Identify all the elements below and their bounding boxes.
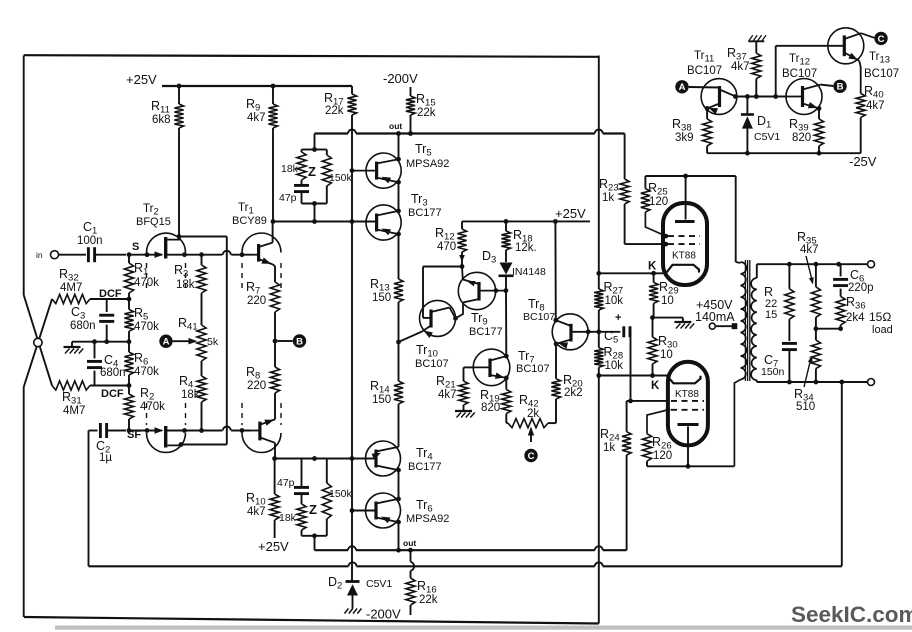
svg-text:5k: 5k xyxy=(207,336,219,348)
node B main xyxy=(293,334,306,347)
svg-text:A: A xyxy=(679,82,686,93)
transistor Tr5 xyxy=(366,153,401,188)
junction R12 bottom xyxy=(460,264,465,269)
svg-text:10k: 10k xyxy=(605,295,624,307)
wire feedback diagonal from R32 xyxy=(24,299,52,387)
svg-text:150k: 150k xyxy=(329,172,353,184)
junction Tr8 collector xyxy=(553,318,558,323)
transistor Tr1 xyxy=(257,244,260,262)
junction S xyxy=(127,252,132,257)
wire Z1 left branch xyxy=(302,149,315,151)
svg-text:120: 120 xyxy=(649,196,668,208)
wire Tr4-Tr6 xyxy=(398,470,400,499)
svg-text:150n: 150n xyxy=(761,366,785,378)
transistor Tr6 xyxy=(366,493,401,528)
svg-text:4k7: 4k7 xyxy=(247,506,266,518)
resistor R8 xyxy=(270,367,279,393)
junction C6 top xyxy=(836,262,841,267)
wire Tr9 collector drop xyxy=(456,303,464,319)
resistor R28 xyxy=(594,348,603,368)
transformer primary xyxy=(741,262,747,380)
svg-text:1k: 1k xyxy=(602,192,614,204)
wire Tr13 emitter xyxy=(859,61,861,94)
transistor Tr10 xyxy=(420,300,456,336)
svg-text:BC107: BC107 xyxy=(516,363,550,375)
ground D2 xyxy=(345,609,349,614)
junction R9/Tr1 collector xyxy=(271,219,276,224)
resistor R16 xyxy=(410,550,412,562)
svg-text:-200V: -200V xyxy=(383,71,418,86)
wire drain rail xyxy=(226,237,228,445)
svg-text:K: K xyxy=(651,380,660,392)
wire Tr13 collector to C xyxy=(861,33,874,38)
wire primary top lead xyxy=(735,176,737,262)
resistor R23 xyxy=(624,134,626,180)
resistor R21 xyxy=(463,367,465,381)
wire Tr1b emitter to R8 xyxy=(274,393,276,419)
junction out chain xyxy=(396,131,401,136)
svg-text:150: 150 xyxy=(372,292,391,304)
resistor R40 xyxy=(856,94,865,118)
svg-text:-25V: -25V xyxy=(849,154,877,169)
diode D1 xyxy=(746,97,748,115)
svg-text:18k: 18k xyxy=(279,512,297,524)
node C bias xyxy=(874,32,887,45)
wire driver node xyxy=(273,221,375,223)
wire Tr1 emitter to R7 xyxy=(273,264,275,266)
node B bias xyxy=(833,80,846,93)
node C main xyxy=(524,449,537,462)
transistor Tr2b xyxy=(164,426,167,448)
svg-text:-200V: -200V xyxy=(366,607,401,622)
svg-text:120: 120 xyxy=(653,450,672,462)
junction Tr10 emitter wire xyxy=(396,340,401,345)
svg-text:470k: 470k xyxy=(134,277,159,289)
wire primary bottom lead xyxy=(734,380,740,467)
wire left border lower xyxy=(23,387,25,617)
capacitor C3 xyxy=(106,299,108,312)
wire out rail bottom xyxy=(315,549,349,551)
transistor Tr2 xyxy=(164,237,167,259)
svg-text:C5V1: C5V1 xyxy=(366,578,392,590)
wire ground link xyxy=(72,341,129,343)
svg-text:B: B xyxy=(837,82,844,93)
resistor R27 xyxy=(594,289,603,310)
wire Tr10 base xyxy=(423,317,431,319)
wire Tr6 base wire xyxy=(352,510,376,512)
junction R9 top xyxy=(271,84,276,89)
resistor R12 xyxy=(461,221,463,229)
envelope arc BJT bottom xyxy=(242,433,281,453)
svg-text:BC177: BC177 xyxy=(408,207,442,219)
wire Z2 bottom xyxy=(302,535,327,537)
svg-text:2k: 2k xyxy=(527,408,539,420)
envelope dashes BJT xyxy=(241,263,243,289)
wire S rail xyxy=(128,255,130,263)
resistor R3 xyxy=(197,265,206,293)
potentiometer R41 xyxy=(197,325,206,361)
wire S to gate xyxy=(129,254,162,256)
svg-text:2k2: 2k2 xyxy=(564,387,583,399)
svg-text:Z: Z xyxy=(309,502,317,517)
resistor R5 xyxy=(124,309,133,331)
svg-text:BFQ15: BFQ15 xyxy=(136,216,171,228)
diode D2 xyxy=(346,580,360,583)
junction K1 rail xyxy=(596,271,601,276)
svg-text:4k7: 4k7 xyxy=(247,112,266,124)
diode D3 xyxy=(500,263,513,275)
svg-text:B: B xyxy=(296,336,303,347)
wire left border upper xyxy=(23,56,25,296)
wire drain2 link xyxy=(181,444,227,446)
svg-text:1µ: 1µ xyxy=(99,452,112,464)
junction D3 node xyxy=(504,288,509,293)
resistor Z2 150k xyxy=(322,483,331,519)
wire Z1 right branch xyxy=(315,149,327,151)
wire hop 3 xyxy=(595,562,603,566)
terminal +450V xyxy=(709,323,715,329)
transistor Tr7 xyxy=(473,349,510,386)
wire R7-R8 xyxy=(274,312,276,367)
junction Tr1 base tip xyxy=(240,252,245,257)
wire Tr10 emitter diagonal xyxy=(399,332,423,343)
svg-text:out: out xyxy=(389,121,402,131)
svg-text:SeekIC.com: SeekIC.com xyxy=(791,602,912,627)
wire R34 pointer xyxy=(804,358,811,387)
wire Tr12 collector to B xyxy=(820,85,833,86)
wire -25V rail xyxy=(707,152,861,154)
svg-text:15: 15 xyxy=(765,309,777,321)
svg-text:4k7: 4k7 xyxy=(731,61,750,73)
junction R3 top xyxy=(199,252,204,257)
junction C7 bottom xyxy=(787,380,792,385)
svg-text:out: out xyxy=(403,538,416,548)
svg-text:2k4: 2k4 xyxy=(846,312,865,324)
resistor R31 xyxy=(52,381,90,390)
junction DCF1 xyxy=(127,297,132,302)
junction bias rail xyxy=(350,219,355,224)
wire R13-R14 xyxy=(398,302,400,381)
svg-text:10: 10 xyxy=(661,295,674,307)
junction R10 top xyxy=(272,456,277,461)
junction R18 top xyxy=(504,219,509,224)
svg-text:A: A xyxy=(163,337,170,348)
tube V2 KT88 xyxy=(668,362,708,446)
svg-text:BC177: BC177 xyxy=(408,461,442,473)
scan edge band xyxy=(55,626,912,630)
wire bias chain rail xyxy=(351,115,353,582)
junction anode1 xyxy=(683,174,688,179)
svg-text:MPSA92: MPSA92 xyxy=(406,513,449,525)
wire to B xyxy=(277,340,292,342)
resistor R24 xyxy=(626,401,628,432)
wire hop 1 xyxy=(349,562,357,566)
resistor R7 xyxy=(270,282,279,312)
resistor R25 xyxy=(644,176,646,189)
resistor R10 xyxy=(274,459,276,495)
wire C5 to grid2 xyxy=(629,331,632,333)
node crossover hop X xyxy=(34,338,42,346)
wire base node 2 xyxy=(275,458,376,460)
wire anode1 stem xyxy=(685,176,687,220)
wire grid1 xyxy=(625,243,666,245)
wire Tr5 emitter xyxy=(398,134,400,160)
wire hop SF wire xyxy=(223,427,231,431)
wire Tr1 collector xyxy=(272,222,274,243)
svg-text:10: 10 xyxy=(660,349,673,361)
svg-text:BC107: BC107 xyxy=(687,65,722,77)
transistor Tr9 xyxy=(458,272,495,309)
junction Tr8 emitter xyxy=(554,342,559,347)
junction Tr4 base xyxy=(350,456,355,461)
junction D1 top xyxy=(745,94,750,99)
junction R4 rail SF xyxy=(199,428,204,433)
wire SF line xyxy=(129,430,162,432)
svg-text:470: 470 xyxy=(437,241,456,253)
junction Tr7 collector xyxy=(504,354,509,359)
resistor Z2 18k xyxy=(297,504,306,530)
svg-text:+: + xyxy=(615,312,621,324)
svg-text:MPSA92: MPSA92 xyxy=(406,158,449,170)
resistor R38 xyxy=(706,108,708,119)
wire Tr6 collector xyxy=(398,522,400,550)
resistor R30 xyxy=(652,318,654,337)
wire grid2 line xyxy=(627,400,668,402)
wire hop border bottom xyxy=(595,546,603,550)
svg-text:R: R xyxy=(764,285,773,299)
junction R34 bottom xyxy=(814,380,819,385)
wire bottom border xyxy=(24,617,599,624)
svg-text:22k: 22k xyxy=(325,105,344,117)
wire out rail top xyxy=(315,132,349,134)
wire anode2 rail xyxy=(647,465,734,467)
junction mid xyxy=(127,339,132,344)
svg-text:6k8: 6k8 xyxy=(152,114,171,126)
envelope dashes FET xyxy=(146,263,148,289)
wire anode2 stem xyxy=(687,426,689,466)
resistor Z1 18k xyxy=(297,152,306,180)
ground C3 xyxy=(71,342,73,347)
svg-text:4M7: 4M7 xyxy=(63,405,85,417)
junction Tr6 base xyxy=(350,508,355,513)
resistor R15 xyxy=(410,87,412,96)
wire R35 pointer xyxy=(806,256,813,282)
transistor Tr2 gate arrow xyxy=(155,251,164,258)
wire Tr3 collector xyxy=(398,234,400,279)
svg-text:load: load xyxy=(872,324,893,336)
svg-text:47p: 47p xyxy=(279,192,297,204)
wire secondary bottom rail xyxy=(757,381,868,383)
wire drain link xyxy=(179,236,227,238)
junction Tr9 collector edge xyxy=(494,288,499,293)
svg-text:+25V: +25V xyxy=(126,72,157,87)
junction R37 bottom xyxy=(754,94,759,99)
wire K1 xyxy=(599,272,663,274)
svg-text:BCY89: BCY89 xyxy=(232,215,267,227)
transistor Tr1b xyxy=(258,422,261,441)
resistor R9 xyxy=(272,86,274,104)
wire secondary bottom lead xyxy=(756,380,758,382)
junction C5 rail xyxy=(596,329,601,334)
node A bias xyxy=(675,80,688,93)
svg-text:3k9: 3k9 xyxy=(675,132,694,144)
junction SF xyxy=(127,428,132,433)
junction Tr7 emitter xyxy=(504,376,509,381)
wire bias node xyxy=(735,96,786,98)
junction Tr2b drain xyxy=(179,442,184,447)
junction Tr1b base tip xyxy=(240,428,245,433)
wire anode1 rail xyxy=(645,175,735,177)
svg-text:220p: 220p xyxy=(848,282,874,294)
node Z1 top xyxy=(314,134,316,150)
capacitor Z1 47p xyxy=(301,180,303,185)
svg-text:10k: 10k xyxy=(605,360,624,372)
junction R11 top xyxy=(177,84,182,89)
svg-text:BC177: BC177 xyxy=(469,326,503,338)
wire R42 wiper xyxy=(530,429,532,443)
resistor R1 xyxy=(124,263,133,293)
svg-text:22k: 22k xyxy=(417,107,436,119)
envelope arc BJT top xyxy=(242,233,281,253)
tube V1 KT88 xyxy=(663,203,707,285)
resistor R39 xyxy=(818,108,820,119)
resistor R36 xyxy=(836,296,845,325)
node A main xyxy=(159,335,172,348)
potentiometer R42 xyxy=(506,422,508,424)
svg-text:BC107: BC107 xyxy=(782,68,817,80)
capacitor C4 xyxy=(94,342,96,359)
wire secondary top lead xyxy=(756,264,758,278)
svg-text:4k7: 4k7 xyxy=(800,244,819,256)
capacitor C7 xyxy=(782,342,797,345)
resistor R13 xyxy=(394,279,403,302)
transistor Tr2b gate arrow xyxy=(155,427,164,434)
svg-text:47p: 47p xyxy=(277,477,295,489)
wire feedback diagonal to R31 xyxy=(24,295,52,386)
resistor R2 xyxy=(124,394,133,419)
svg-text:BC107: BC107 xyxy=(523,311,555,323)
capacitor C6 xyxy=(839,263,841,265)
junction Z2 top xyxy=(312,456,317,461)
svg-text:1k: 1k xyxy=(603,442,615,454)
terminal output top xyxy=(868,261,875,268)
resistor R17 xyxy=(351,86,353,94)
svg-text:+25V: +25V xyxy=(258,539,289,554)
junction Tr8 base edge xyxy=(586,329,591,334)
junction DCF2 xyxy=(127,383,132,388)
wire Tr9 emitter link xyxy=(423,266,462,268)
transistor Tr12 xyxy=(786,79,822,115)
transistor Tr4 xyxy=(366,441,401,476)
terminal input xyxy=(51,251,59,259)
envelope arc FET top xyxy=(147,233,186,252)
wire centre tap xyxy=(715,325,734,327)
svg-text:4k7: 4k7 xyxy=(438,389,457,401)
resistor R32 xyxy=(52,294,90,303)
svg-text:4k7: 4k7 xyxy=(866,100,885,112)
svg-text:470k: 470k xyxy=(140,401,165,413)
resistor R34 xyxy=(815,329,817,340)
svg-text:470k: 470k xyxy=(134,321,159,333)
wire hop over bias rail xyxy=(348,130,356,134)
svg-text:KT88: KT88 xyxy=(675,389,699,400)
transformer core xyxy=(744,260,746,381)
wire A arrow xyxy=(173,340,190,342)
svg-text:220: 220 xyxy=(247,380,266,392)
transistor Tr3 xyxy=(366,205,401,240)
wire Z1 bottom xyxy=(326,186,328,204)
svg-text:680n: 680n xyxy=(100,367,126,379)
wire Tr1b collector xyxy=(274,443,276,459)
svg-text:DCF: DCF xyxy=(101,388,124,400)
svg-text:+25V: +25V xyxy=(555,206,586,221)
capacitor C2 xyxy=(99,423,102,438)
svg-text:C: C xyxy=(528,451,535,462)
wire Tr5-Tr3 xyxy=(398,182,400,211)
resistor R29 xyxy=(653,273,655,282)
junction B node xyxy=(273,339,278,344)
resistor R20 xyxy=(555,399,557,423)
envelope arc FET bottom xyxy=(147,433,186,452)
resistor R22 xyxy=(788,264,790,289)
wire secondary top rail xyxy=(757,263,868,265)
wire C2 left xyxy=(89,430,98,432)
svg-text:100n: 100n xyxy=(77,235,103,247)
junction K2 rail xyxy=(596,373,601,378)
junction feedback takeoff xyxy=(839,380,844,385)
transistor Tr13 xyxy=(828,28,864,64)
svg-text:150: 150 xyxy=(372,394,391,406)
junction Tr13 base drop xyxy=(773,94,778,99)
resistor R19 xyxy=(505,378,507,390)
wire hop over border rail xyxy=(595,130,603,134)
wire Tr13 base drop xyxy=(775,46,777,97)
wire Tr7 base xyxy=(464,366,474,368)
junction chain bottom xyxy=(396,548,401,553)
wire +25V top rail xyxy=(162,85,352,87)
svg-text:4M7: 4M7 xyxy=(60,282,82,294)
svg-text:Z: Z xyxy=(308,164,316,179)
ground R21 xyxy=(455,410,472,412)
terminal output bottom xyxy=(868,379,875,386)
resistor Z1 150k xyxy=(322,155,331,186)
svg-text:470k: 470k xyxy=(134,366,159,378)
transistor Tr11 xyxy=(701,79,737,115)
svg-text:220: 220 xyxy=(247,295,266,307)
resistor R11 xyxy=(178,86,180,104)
wire Tr8 supply xyxy=(554,221,556,320)
svg-text:C: C xyxy=(878,34,885,45)
wire A to Tr11 xyxy=(689,86,720,89)
wire D3 line down xyxy=(505,291,507,357)
junction R15 bottom xyxy=(408,131,413,136)
wire hop S wire xyxy=(223,251,231,255)
transistor Tr8 xyxy=(552,314,588,350)
svg-text:BC107: BC107 xyxy=(864,68,899,80)
junction Tr2 drain xyxy=(177,234,182,239)
wire R3 rail xyxy=(201,255,203,265)
svg-text:140mA: 140mA xyxy=(695,310,735,324)
junction Tr5 base xyxy=(350,168,355,173)
svg-text:in: in xyxy=(36,250,43,260)
junction Tr8 supply xyxy=(553,219,558,224)
svg-text:15Ω: 15Ω xyxy=(869,310,891,324)
chassis R37 xyxy=(748,40,764,42)
wire feedback riser xyxy=(841,382,843,566)
wire right border feedback rail xyxy=(598,56,600,274)
wire C2 feedback drop xyxy=(88,431,90,567)
transformer secondary xyxy=(751,278,757,380)
